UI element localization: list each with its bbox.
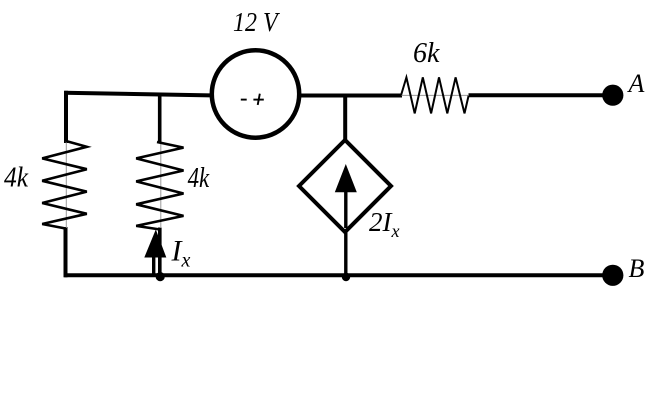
resistor R1 zigzag 4k bbox=[42, 141, 87, 229]
svg-text:Ix: Ix bbox=[171, 235, 191, 272]
wire vertical drop to R2 bbox=[158, 94, 162, 144]
wire from source right to 6k resistor bbox=[299, 94, 402, 98]
svg-text:4k: 4k bbox=[4, 162, 29, 193]
resistor R3 zigzag 6k bbox=[401, 77, 469, 113]
svg-text:B: B bbox=[629, 254, 645, 283]
voltage source polarity minus bbox=[241, 99, 247, 101]
wire top-left horizontal (node top rail, left of source) bbox=[64, 93, 210, 96]
dependent source arrow shaft bbox=[344, 190, 347, 228]
wire junction drop to dependent source bbox=[343, 96, 347, 142]
wire R2 bottom lead bbox=[158, 228, 162, 277]
wire R1 bottom lead bbox=[64, 227, 68, 277]
svg-text:12 V: 12 V bbox=[233, 6, 280, 37]
resistor R1 center line (thin) bbox=[65, 141, 67, 228]
node B terminal dot bbox=[602, 265, 623, 286]
svg-text:A: A bbox=[627, 69, 645, 98]
svg-text:2Ix: 2Ix bbox=[369, 207, 400, 241]
voltage source polarity plus bbox=[253, 99, 263, 101]
wire dependent source bottom lead bbox=[344, 192, 347, 276]
wire from 6k resistor to node A bbox=[469, 93, 607, 97]
resistor R3 center line (thin) bbox=[401, 94, 469, 96]
current arrow Ix head bbox=[144, 230, 166, 258]
dependent current source U1 diamond bbox=[299, 140, 391, 232]
svg-text:6k: 6k bbox=[413, 38, 440, 69]
junction dot at dependent source lead / bottom rail bbox=[342, 273, 350, 281]
wire left vertical drop to R1 bbox=[64, 91, 68, 143]
node A terminal dot bbox=[602, 85, 623, 106]
current arrow Ix shaft bbox=[152, 256, 155, 275]
resistor R2 center line (thin) bbox=[160, 142, 162, 228]
svg-text:4k: 4k bbox=[188, 163, 210, 194]
dependent source arrow head bbox=[335, 164, 357, 192]
junction dot at R2 lead / bottom rail bbox=[156, 272, 165, 281]
wire bottom rail bbox=[64, 273, 606, 277]
resistor R2 zigzag 4k bbox=[136, 142, 183, 230]
voltage source V1 circle bbox=[212, 50, 299, 137]
